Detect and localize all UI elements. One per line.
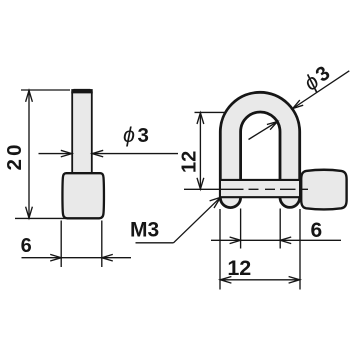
pin shaft through legs (gray band)	[221, 181, 299, 197]
dimension phi3 (right view) : inner arrowhead	[267, 122, 278, 130]
shackle body U1	[220, 92, 299, 207]
dimension 12 bottom : extension lines	[219, 209, 221, 290]
pin shaft P1	[72, 90, 92, 174]
dimension phi3 (left view) : right arrow	[92, 150, 178, 157]
M3 leader arrowhead	[210, 197, 221, 208]
dimension 6 (left view) : arrows	[50, 254, 61, 261]
svg-text:M3: M3	[130, 218, 159, 241]
svg-text:12: 12	[227, 256, 251, 280]
dimension 12 bottom : dimension line	[220, 279, 299, 281]
dimension 12 vertical : dimension line	[199, 113, 201, 189]
dimension phi3 (right view) : leader line	[293, 71, 350, 109]
dimension 12 vertical : arrow up	[197, 113, 204, 124]
svg-text:20: 20	[3, 141, 26, 170]
dimension 6 (right view) : arrows	[230, 237, 241, 244]
dimension 12 bottom : arrow left	[220, 277, 231, 284]
dimension phi3 (right view) : inner arrow line	[249, 122, 278, 140]
pin centerline (dashed)	[222, 188, 308, 190]
dimension 12 vertical : arrow down	[197, 178, 204, 189]
svg-text:6: 6	[310, 219, 322, 242]
dimension phi3 (left view) : left arrow	[39, 150, 72, 157]
dimension 20 : arrow down	[26, 207, 33, 218]
pin top edge	[220, 179, 299, 181]
dimension 6 (right view) : extension lines	[240, 209, 242, 249]
pin top cap (black)	[71, 89, 92, 94]
dimension 12 vertical : extension line top	[195, 111, 227, 113]
dimension 20 : extension line bottom	[15, 217, 66, 219]
dimension 6 (left view) : extension lines	[60, 221, 62, 268]
dimension 20 : dimension line	[28, 91, 30, 219]
dimension phi3 (right view) : outer arrowhead	[293, 100, 304, 108]
dimension 20 : arrow up	[26, 91, 33, 102]
svg-text:12: 12	[178, 151, 200, 173]
pin bottom edge	[220, 196, 299, 198]
dimension 20 : extension line top	[21, 89, 70, 91]
M3 leader diagonal	[174, 197, 221, 243]
svg-text:6: 6	[21, 235, 32, 257]
dimension 6 (right view) : dimension line	[211, 239, 341, 241]
dimension 12 bottom : arrow right	[289, 277, 300, 284]
dimension 6 (left view) : dimension line	[22, 257, 132, 259]
pin head (right, barrel)	[301, 170, 346, 210]
M3 leader underline	[136, 242, 174, 244]
dimension 12 vertical : extension line bottom (pin centerline ext)	[184, 188, 222, 190]
pin head (barrel)	[62, 173, 103, 218]
